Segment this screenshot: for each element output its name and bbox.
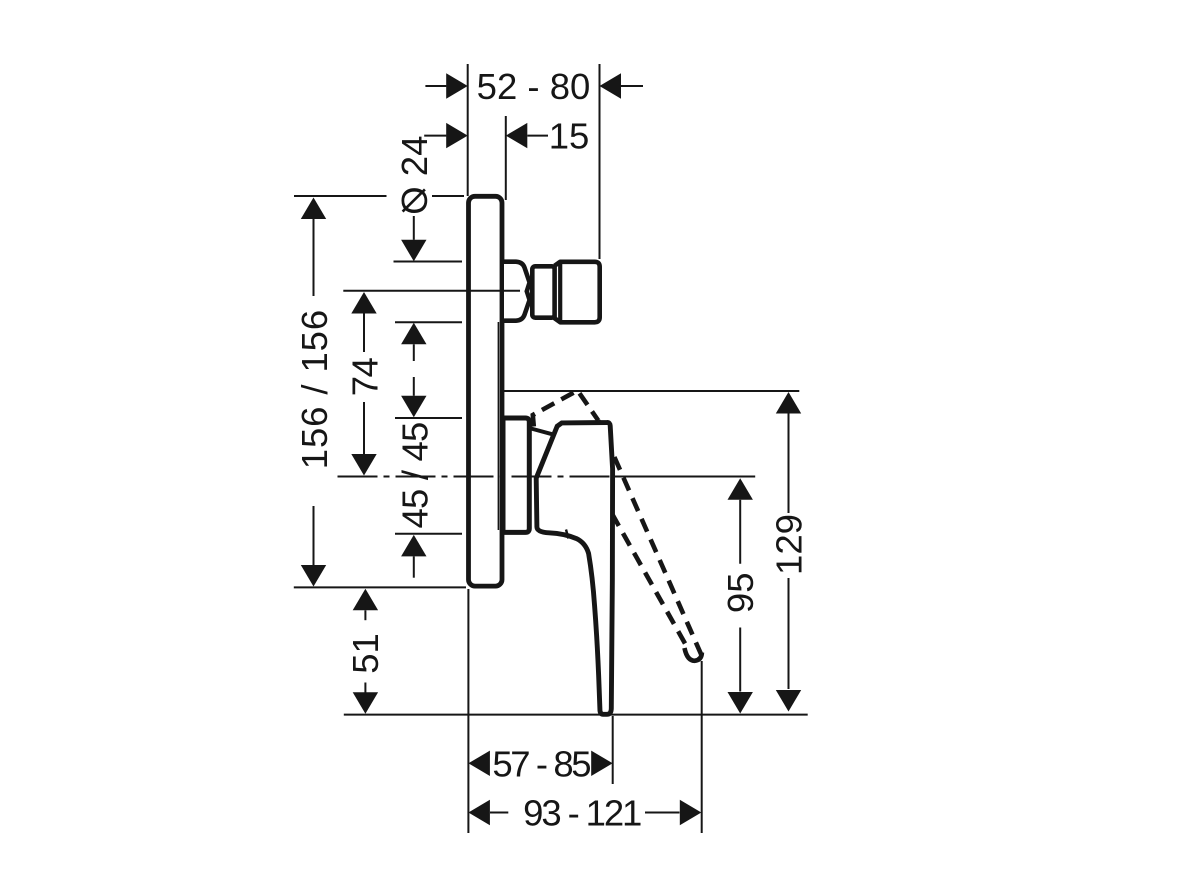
node: dimension 57 - 85 [468, 743, 612, 784]
node: dimension 95 [720, 478, 761, 713]
valve sleeve [503, 418, 529, 532]
wire: knob centerline [343, 290, 520, 292]
wire: extension line knob right top [599, 64, 601, 259]
valve funnel [504, 262, 530, 321]
wire: bottom extension line handle tip [612, 716, 614, 784]
svg-text:57 - 85: 57 - 85 [492, 743, 590, 784]
wall plate [469, 196, 503, 586]
node: dimension Ø 24 [394, 136, 435, 361]
wire: floor line handle bottom [344, 714, 808, 716]
node: dimension 51 [345, 589, 386, 714]
wire: extension line knob bottom [395, 321, 462, 323]
wire: extension line handle top [395, 417, 462, 419]
wire: bottom extension line left [467, 589, 469, 833]
wire: extension line wall plane top [505, 116, 507, 200]
node: dimension 129 [768, 392, 809, 712]
svg-text:95: 95 [720, 572, 761, 613]
node: dimension 45 / 45 [394, 377, 435, 578]
wire: extension line sleeve bottom [395, 533, 462, 535]
node: dimension 93 - 121 [468, 793, 701, 834]
svg-text:O 24: O 24 [394, 136, 435, 215]
svg-text:93 - 121: 93 - 121 [523, 793, 641, 834]
wire: extension line plate front top [467, 64, 469, 196]
node: handle parting tick [566, 530, 569, 539]
wire: hidden edge below knob [497, 322, 499, 530]
node: dimension 15 [424, 116, 589, 157]
wire: handle centerline dash-dot [338, 476, 756, 478]
node: dimension 74 [344, 292, 385, 476]
wire: extension line plate bottom [294, 586, 466, 588]
svg-text:52 - 80: 52 - 80 [477, 66, 591, 107]
svg-text:156 / 156: 156 / 156 [294, 309, 335, 469]
wire: extension line knob top [394, 261, 463, 263]
wire: extension line plate top [294, 195, 464, 197]
wire: extension line dashed apex [501, 390, 799, 392]
node: dimension 52 - 80 [425, 66, 643, 107]
node: handle neck line [531, 429, 553, 435]
svg-text:74: 74 [344, 358, 385, 397]
node: valve block left edge [558, 263, 562, 322]
wire: bottom extension line dashed tip [701, 661, 703, 833]
svg-text:129: 129 [768, 514, 809, 575]
lever handle solid [536, 422, 612, 714]
svg-text:15: 15 [549, 116, 590, 157]
node: dimension 156 / 156 [294, 198, 335, 587]
lever handle dashed (raised position) [533, 391, 703, 661]
valve small cylinder [532, 266, 555, 317]
valve body block [555, 262, 600, 323]
svg-text:51: 51 [345, 633, 386, 674]
